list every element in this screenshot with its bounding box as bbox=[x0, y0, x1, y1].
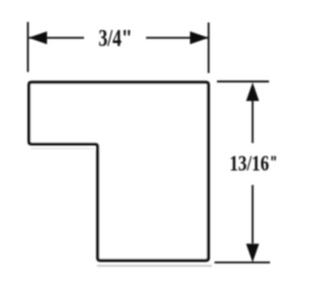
width dimension left arrowhead bbox=[29, 31, 48, 44]
top extension line of height dimension bbox=[217, 81, 269, 83]
width dimension line left segment bbox=[29, 37, 84, 39]
inch mark of 13/16 label bbox=[271, 156, 276, 160]
scan ghost line under top edge bbox=[31, 86, 207, 88]
scan ghost line under bottom edge bbox=[97, 265, 212, 267]
bottom extension line of height dimension bbox=[215, 261, 271, 263]
scan ghost line under step edge bbox=[31, 148, 95, 150]
height dimension down arrowhead bbox=[246, 244, 259, 262]
inch mark of 3/4 label bbox=[124, 30, 131, 35]
svg-text:3/4: 3/4 bbox=[99, 26, 122, 52]
width dimension right arrowhead bbox=[190, 31, 209, 44]
svg-text:13/16: 13/16 bbox=[230, 150, 270, 175]
width dimension line right segment bbox=[146, 37, 208, 39]
height dimension up arrowhead bbox=[246, 83, 259, 102]
height dimension line upper segment bbox=[252, 101, 254, 143]
moulding profile outline (L-shaped cross-section) bbox=[29, 82, 208, 260]
right extension line of width dimension bbox=[208, 23, 210, 74]
left extension line of width dimension bbox=[27, 22, 29, 72]
height dimension line lower segment bbox=[252, 185, 254, 244]
